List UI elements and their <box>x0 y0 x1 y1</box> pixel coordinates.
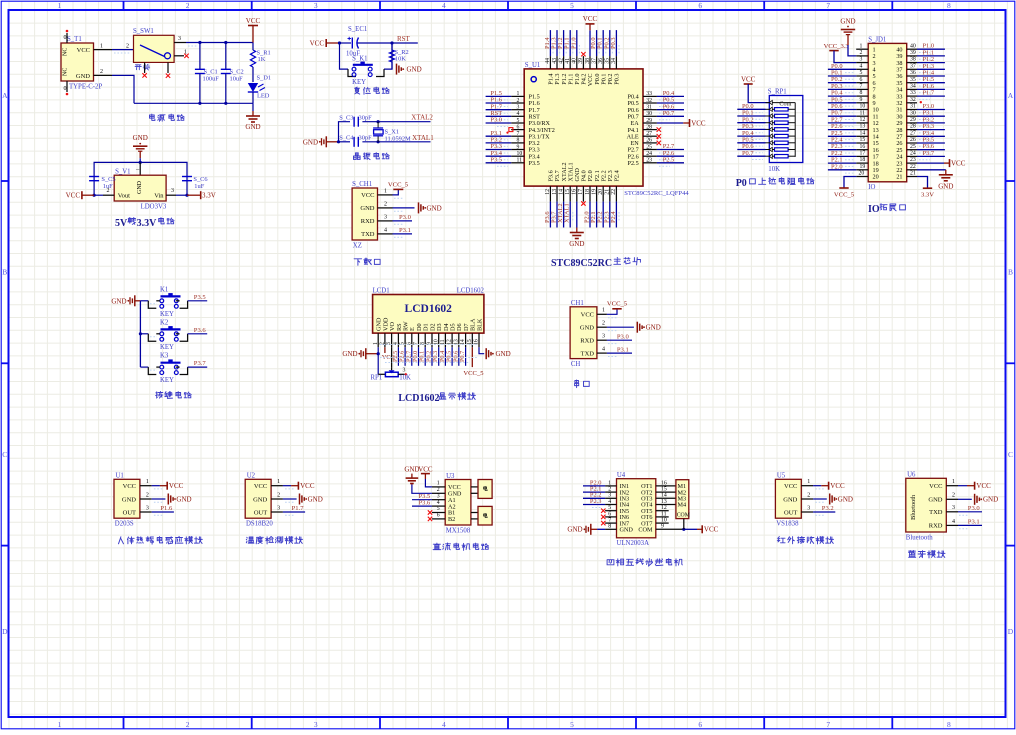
svg-text:P3.6: P3.6 <box>419 499 431 506</box>
MCU pin 40 top <box>570 30 579 69</box>
svg-text:S_K1: S_K1 <box>352 56 368 63</box>
svg-text:3: 3 <box>178 36 181 42</box>
svg-text:D: D <box>1008 627 1014 636</box>
U6 pin4 RXD net P3.1 <box>946 519 982 529</box>
LDO rail wires <box>94 158 187 195</box>
svg-text:30pF: 30pF <box>359 135 373 142</box>
svg-text:14: 14 <box>558 189 564 195</box>
U4 pin4 net P2.3 <box>583 498 617 508</box>
svg-text:4: 4 <box>384 227 387 233</box>
MCU pin 19 bottom <box>590 186 599 227</box>
capacitor S_C3 30pF <box>339 115 372 127</box>
svg-text:S_SW1: S_SW1 <box>133 28 154 35</box>
caption 直流电机电路 <box>433 543 489 550</box>
svg-text:VCC: VCC <box>418 466 433 474</box>
svg-text:31: 31 <box>646 105 652 111</box>
U5 pin3 net P3.2 <box>801 505 835 515</box>
svg-text:17: 17 <box>578 189 584 195</box>
svg-text:GND: GND <box>76 73 90 80</box>
LCD pin 9 <box>426 333 433 366</box>
wire GND to JD1 pin2 <box>848 45 856 56</box>
svg-text:7: 7 <box>608 518 611 524</box>
svg-text:VCC: VCC <box>169 482 184 490</box>
GND sideways left of LCD rail <box>342 348 378 359</box>
svg-text:GND: GND <box>580 325 594 332</box>
JD1 pin 25 wire net P3.6 <box>907 143 945 153</box>
svg-text:6: 6 <box>860 77 863 83</box>
switch S_SW1 <box>133 28 174 70</box>
svg-text:6: 6 <box>698 720 702 729</box>
svg-text:8: 8 <box>608 524 611 530</box>
svg-text:P0.7: P0.7 <box>459 351 466 362</box>
svg-text:4: 4 <box>442 1 446 10</box>
S_CH1 pin2 GND <box>378 201 442 213</box>
JD1 pin 18 wire net P2.1 <box>828 157 868 167</box>
U4 pin10 stub <box>656 518 669 524</box>
JD1 pin 8 wire net P0.4 <box>828 90 868 100</box>
svg-text:30pF: 30pF <box>359 115 373 122</box>
capacitor S_C1 100uF <box>195 41 219 105</box>
svg-text:7: 7 <box>860 84 863 90</box>
svg-text:D203S: D203S <box>115 520 134 527</box>
svg-text:34: 34 <box>611 58 617 64</box>
svg-text:P1.7: P1.7 <box>292 505 305 512</box>
GND sideways under R2 <box>397 64 422 75</box>
svg-text:4: 4 <box>860 63 863 69</box>
MCU pin 17 bottom <box>578 186 585 206</box>
svg-text:VCC: VCC <box>741 76 756 84</box>
svg-text:LCD1602: LCD1602 <box>457 288 485 295</box>
LCD1 LCD1602 body <box>373 288 485 334</box>
MCU pin 18 bottom <box>584 186 593 227</box>
svg-text:40: 40 <box>910 43 916 49</box>
svg-text:VCC: VCC <box>77 47 90 54</box>
svg-text:P3.0: P3.0 <box>490 117 502 124</box>
svg-text:VCC: VCC <box>704 526 719 534</box>
svg-text:2: 2 <box>602 321 605 327</box>
MCU pin 8 left <box>486 137 525 147</box>
svg-text:40: 40 <box>572 58 578 64</box>
caption 下载口 <box>354 258 380 265</box>
svg-text:3: 3 <box>146 505 149 511</box>
wire net P0.1 to RP1 <box>737 110 765 120</box>
VCC bar U3 <box>418 466 433 479</box>
U1 pin1 VCC <box>140 479 184 490</box>
svg-text:P0.7: P0.7 <box>663 110 675 117</box>
MCU pin 34 top <box>610 30 619 69</box>
U4 pin9 COM to VCC <box>656 524 719 534</box>
caption 四相五线步进电机 <box>607 559 682 567</box>
svg-text:P2.5: P2.5 <box>663 156 675 163</box>
svg-text:24: 24 <box>646 151 652 157</box>
svg-text:NC: NC <box>63 48 69 56</box>
U4 pin7 nc <box>601 518 616 526</box>
svg-text:5: 5 <box>570 720 574 729</box>
MCU pin 10 left <box>486 150 525 160</box>
MCU pin 12 bottom <box>544 186 553 227</box>
svg-text:24: 24 <box>910 151 916 157</box>
MCU pin 22 bottom <box>610 186 619 227</box>
CH1 pin3 RXD net P3.0 <box>597 333 632 343</box>
svg-text:U6: U6 <box>907 472 916 479</box>
svg-text:XZ: XZ <box>353 243 362 250</box>
JD1 pin 38 wire net P1.2 <box>907 56 945 66</box>
svg-text:37: 37 <box>591 58 597 64</box>
svg-text:VCC_5: VCC_5 <box>463 370 484 377</box>
svg-text:22: 22 <box>611 189 617 195</box>
U4 pin6 nc <box>601 511 616 519</box>
svg-text:8: 8 <box>947 1 951 10</box>
svg-text:42: 42 <box>558 58 564 64</box>
svg-text:33: 33 <box>910 90 916 96</box>
svg-text:GND: GND <box>646 324 661 332</box>
svg-text:P1.6: P1.6 <box>160 505 173 512</box>
svg-text:2: 2 <box>126 44 129 50</box>
JD1 pin 9 wire net P0.5 <box>828 96 868 106</box>
svg-text:29: 29 <box>910 117 916 123</box>
svg-text:OUT: OUT <box>784 509 797 516</box>
power VCC symbol top right <box>246 17 261 43</box>
MCU pin 15 bottom <box>564 186 573 227</box>
U6 pin2 GND <box>946 493 998 505</box>
svg-text:17: 17 <box>860 151 866 157</box>
LCD pin 13 <box>452 333 459 366</box>
svg-text:STC89C52RC_LQFP44: STC89C52RC_LQFP44 <box>624 190 689 197</box>
svg-text:P3.1: P3.1 <box>617 346 629 353</box>
svg-text:P0.7: P0.7 <box>742 150 754 157</box>
module U5 VS1838 <box>775 472 801 527</box>
wire net P0.6 to RP1 <box>737 143 765 153</box>
svg-text:GND: GND <box>360 205 374 212</box>
svg-text:12: 12 <box>860 117 866 123</box>
MCU pin 26 right <box>643 138 661 145</box>
svg-text:IO: IO <box>868 184 875 191</box>
svg-text:ULN2003A: ULN2003A <box>617 540 650 547</box>
U4 pin11 stub <box>656 511 669 517</box>
regulator S_V1 LDO3V3 <box>114 169 167 211</box>
reset top wire <box>338 41 418 44</box>
svg-text:LCD1602: LCD1602 <box>398 393 439 404</box>
svg-text:18: 18 <box>585 189 591 195</box>
svg-text:P2.5: P2.5 <box>628 160 639 167</box>
svg-text:1: 1 <box>100 44 103 50</box>
MCU pin 2 left <box>486 97 525 107</box>
resistor S_R2 10K <box>389 43 408 69</box>
svg-text:2: 2 <box>860 50 863 56</box>
svg-text:23: 23 <box>646 158 652 164</box>
U2 pin2 GND <box>271 492 323 504</box>
U4 pin16 to motor <box>656 480 676 486</box>
svg-text:27: 27 <box>646 131 652 137</box>
svg-text:3: 3 <box>437 493 440 499</box>
svg-text:2: 2 <box>437 487 440 493</box>
JD1 pin 34 wire net P1.6 <box>907 83 945 93</box>
svg-text:34: 34 <box>910 84 916 90</box>
svg-text:35: 35 <box>605 58 611 64</box>
JD1 pin22 GND earth <box>907 164 954 191</box>
svg-text:13: 13 <box>552 189 558 195</box>
svg-text:Vout: Vout <box>118 193 130 200</box>
svg-text:100uF: 100uF <box>203 76 220 83</box>
svg-text:26: 26 <box>910 137 916 143</box>
key K2 <box>140 319 207 351</box>
svg-text:VS1838: VS1838 <box>776 520 799 527</box>
U4 pin15 to motor <box>656 487 676 493</box>
LCD pin 4 <box>392 333 399 366</box>
motor connector B <box>471 506 492 525</box>
JD1 pin23 VCC port <box>907 157 966 167</box>
svg-text:S_T1: S_T1 <box>67 36 82 43</box>
svg-text:B: B <box>1008 268 1013 277</box>
connector S_JD1 IO <box>868 37 907 192</box>
U3 pin3 net P3.5 <box>412 493 445 500</box>
JD1 pin1 stub <box>856 43 868 49</box>
VCC port reset <box>310 39 340 48</box>
JD1 pin 12 wire net P2.7 <box>828 116 868 126</box>
svg-text:GND: GND <box>308 495 323 503</box>
connector CH1 serial <box>570 300 597 368</box>
svg-text:P3.6: P3.6 <box>194 327 207 334</box>
svg-text:GND: GND <box>342 350 357 358</box>
svg-text:GND: GND <box>253 496 267 503</box>
svg-text:20: 20 <box>873 174 879 181</box>
CH1 pin2 GND <box>597 321 661 333</box>
U4 ULN2003A body <box>617 472 656 547</box>
CH1 pin1 VCC to VCC_5 <box>597 301 628 318</box>
U4 pin12 stub <box>656 505 669 511</box>
svg-text:GND: GND <box>938 183 953 191</box>
svg-text:S_U1: S_U1 <box>525 62 541 69</box>
svg-text:10uF: 10uF <box>230 76 244 83</box>
LCD GND rail + potentiometer RP1 10K <box>371 352 411 382</box>
svg-text:1: 1 <box>608 480 611 486</box>
svg-text:2: 2 <box>517 98 520 104</box>
svg-text:P3.0: P3.0 <box>617 333 630 340</box>
svg-text:44: 44 <box>545 58 551 64</box>
VCC port for RP1 <box>741 76 769 103</box>
caption P0口上拉电阻电路 <box>736 178 814 189</box>
MCU pin 16 bottom <box>569 186 584 248</box>
svg-text:7: 7 <box>517 131 520 137</box>
wire net P0.2 to RP1 <box>737 116 765 126</box>
svg-text:KEY: KEY <box>160 344 174 351</box>
svg-text:MX1508: MX1508 <box>446 528 471 535</box>
LCD pin 6 <box>405 333 412 366</box>
LCD dashes <box>380 345 478 363</box>
MCU pin 20 bottom <box>597 186 606 227</box>
MCU pin 24 right <box>643 150 684 160</box>
net label XTAL2 <box>411 114 433 122</box>
JD1 pin 17 wire net P2.2 <box>828 150 868 160</box>
U3 pin1 VCC wire <box>425 479 445 487</box>
svg-text:RP1: RP1 <box>371 375 383 382</box>
MCU pin 42 top <box>557 30 566 69</box>
svg-text:P1.0: P1.0 <box>570 37 577 49</box>
svg-text:LCD1602: LCD1602 <box>405 303 453 315</box>
svg-text:S_C4: S_C4 <box>339 135 354 142</box>
svg-text:GND: GND <box>983 496 998 504</box>
svg-text:S_CH1: S_CH1 <box>352 181 372 188</box>
svg-text:P0.3: P0.3 <box>614 74 621 85</box>
U1 pin3 net P1.6 <box>140 505 174 515</box>
svg-text:21: 21 <box>910 171 916 177</box>
svg-text:GND: GND <box>569 240 584 248</box>
svg-text:IO: IO <box>868 204 880 215</box>
svg-text:21: 21 <box>605 189 611 195</box>
JD1 pin 27 wire net P3.4 <box>907 130 945 140</box>
caption 人体热释电感应模块 <box>119 537 203 545</box>
svg-text:29: 29 <box>646 118 652 124</box>
LCD pin 16 <box>474 333 485 354</box>
svg-text:GND: GND <box>111 297 126 305</box>
svg-text:5: 5 <box>517 118 520 124</box>
net label RST <box>397 35 411 43</box>
JD1 pin 13 wire net P2.6 <box>828 123 868 133</box>
svg-text:14: 14 <box>661 493 667 499</box>
svg-text:39: 39 <box>910 50 916 56</box>
svg-text:10K: 10K <box>768 166 780 173</box>
svg-text:LDO3V3: LDO3V3 <box>141 204 167 211</box>
svg-text:C: C <box>1008 450 1013 459</box>
svg-text:GND: GND <box>427 204 442 212</box>
svg-text:C: C <box>2 450 7 459</box>
JD1 pin 29 wire net P3.2 <box>907 116 945 126</box>
U2 pin1 VCC <box>271 479 315 490</box>
svg-text:16: 16 <box>860 144 866 150</box>
S_CH1 pin4 TXD net P3.1 <box>378 227 413 237</box>
svg-text:RST: RST <box>397 35 411 43</box>
svg-text:15: 15 <box>860 137 866 143</box>
key K1 <box>140 286 207 318</box>
svg-text:P3.0: P3.0 <box>399 214 412 221</box>
MCU pin 11 left <box>486 156 525 166</box>
CH1 pin4 TXD net P3.1 <box>597 346 632 356</box>
svg-text:P3.7: P3.7 <box>194 360 207 367</box>
motor connector A <box>471 480 492 499</box>
svg-text:3.3V: 3.3V <box>137 218 158 229</box>
svg-text:COM: COM <box>638 527 653 534</box>
svg-text:1: 1 <box>807 479 810 485</box>
U4 pin5 nc <box>601 505 616 513</box>
MCU pin 13 bottom <box>551 186 560 227</box>
svg-text:15: 15 <box>565 189 571 195</box>
svg-text:P3.5: P3.5 <box>194 294 207 301</box>
svg-text:1uF: 1uF <box>194 183 204 190</box>
caption IO拓展口 <box>868 204 905 215</box>
svg-text:14: 14 <box>860 130 866 136</box>
svg-text:39: 39 <box>578 58 584 64</box>
svg-text:U3: U3 <box>446 473 455 480</box>
JD1 pin 4 wire net P0.0 <box>828 63 868 73</box>
svg-text:12: 12 <box>661 505 667 511</box>
caption 红外接收模块 <box>778 537 834 544</box>
GND earth above LDO <box>133 134 148 158</box>
svg-text:8: 8 <box>517 138 520 144</box>
svg-text:4: 4 <box>602 347 605 353</box>
JD1 pin 14 wire net P2.5 <box>828 130 868 140</box>
svg-text:15: 15 <box>661 487 667 493</box>
svg-text:4: 4 <box>517 111 520 117</box>
svg-text:3: 3 <box>860 57 863 63</box>
svg-text:P0.3: P0.3 <box>610 37 617 49</box>
MCU pin 43 top <box>551 30 560 69</box>
svg-text:P3.2: P3.2 <box>822 505 834 512</box>
svg-text:K1: K1 <box>160 286 168 293</box>
svg-text:36: 36 <box>598 58 604 64</box>
svg-text:TYPE-C-2P: TYPE-C-2P <box>69 84 102 91</box>
MCU pin 5 left <box>486 117 525 127</box>
svg-text:3: 3 <box>403 367 406 373</box>
MCU pin 27 right <box>643 131 661 139</box>
capacitor S_EC1 10uF <box>346 26 367 58</box>
svg-text:S_C2: S_C2 <box>230 69 244 76</box>
svg-text:13: 13 <box>661 499 667 505</box>
svg-text:11: 11 <box>860 110 866 116</box>
wire net P0.0 to RP1 <box>737 103 765 113</box>
svg-text:6: 6 <box>517 124 520 130</box>
caption 串口 <box>575 380 590 388</box>
svg-text:Vin: Vin <box>154 193 164 200</box>
MCU pin 6 left <box>506 124 524 133</box>
svg-text:GND: GND <box>133 134 148 142</box>
svg-text:2: 2 <box>186 720 190 729</box>
svg-text:7: 7 <box>826 720 830 729</box>
svg-text:KEY: KEY <box>160 311 174 318</box>
MCU pin 4 left <box>486 110 525 120</box>
svg-text:5: 5 <box>437 506 440 512</box>
svg-text:VCC: VCC <box>246 17 261 25</box>
svg-text:3: 3 <box>952 505 955 511</box>
stepper motor connector M <box>676 480 690 530</box>
svg-text:9: 9 <box>860 97 863 103</box>
U3 pin4 net P3.6 <box>412 499 445 506</box>
svg-text:XTAL1: XTAL1 <box>564 203 571 223</box>
svg-text:A: A <box>2 91 8 100</box>
svg-text:TXD: TXD <box>929 509 943 516</box>
svg-text:9: 9 <box>661 524 664 530</box>
svg-text:38: 38 <box>910 57 916 63</box>
LED S_D1 <box>248 75 271 104</box>
svg-text:36: 36 <box>910 70 916 76</box>
svg-text:6: 6 <box>437 513 440 519</box>
svg-text:10: 10 <box>661 518 667 524</box>
svg-text:4: 4 <box>952 519 955 525</box>
svg-text:RXD: RXD <box>929 523 943 530</box>
U6 pin1 VCC <box>946 479 991 490</box>
connector S_T1 TYPE-C-2P <box>61 36 102 91</box>
svg-text:NC: NC <box>63 68 69 76</box>
svg-text:DS18B20: DS18B20 <box>246 520 273 527</box>
svg-text:RXD: RXD <box>361 218 375 225</box>
svg-text:3.3V: 3.3V <box>202 192 216 200</box>
crystal wires <box>337 120 431 143</box>
svg-text:KEY: KEY <box>352 79 366 86</box>
svg-text:2: 2 <box>186 1 190 10</box>
svg-text:GND: GND <box>407 66 422 74</box>
MCU pin 33 right <box>643 90 684 100</box>
svg-text:3: 3 <box>807 505 810 511</box>
svg-text:3: 3 <box>314 1 318 10</box>
svg-text:16: 16 <box>572 189 578 195</box>
resistor network S_RP1 10K <box>766 89 803 174</box>
svg-text:5: 5 <box>608 505 611 511</box>
svg-text:VCC: VCC <box>310 40 325 48</box>
JD1 pin 16 wire net P2.3 <box>828 143 868 153</box>
svg-text:4: 4 <box>437 500 440 506</box>
U3 pin2 GND wire <box>412 485 445 494</box>
MCU pin 9 left <box>486 143 525 153</box>
LCD pin 7 <box>412 333 419 366</box>
